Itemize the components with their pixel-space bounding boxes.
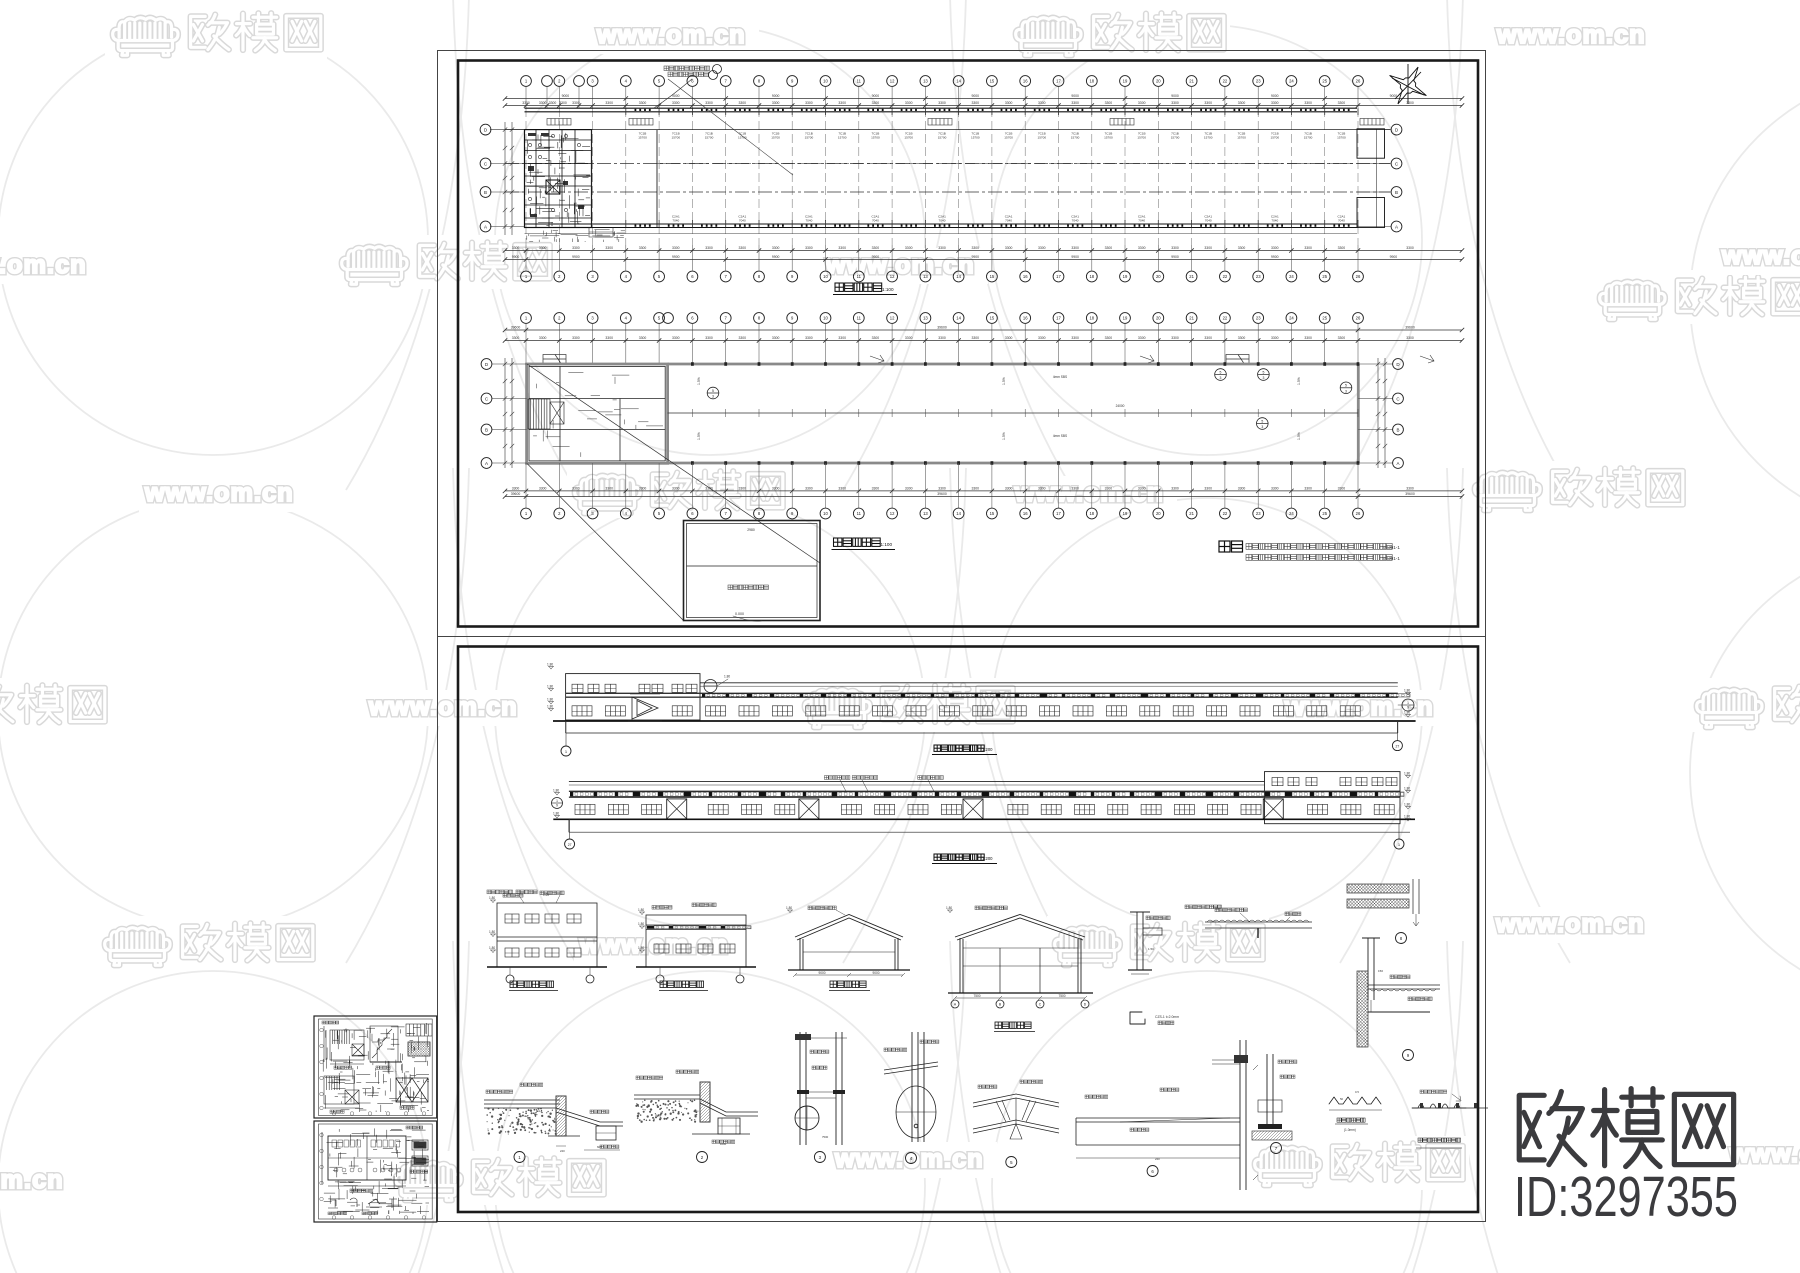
svg-text:1.80: 1.80 xyxy=(1404,771,1410,775)
svg-text:5: 5 xyxy=(1261,419,1263,423)
svg-text:15700: 15700 xyxy=(805,136,814,140)
svg-text:9000: 9000 xyxy=(872,971,879,975)
detail 9 wall section xyxy=(1281,971,1443,1047)
svg-text:0.5: 0.5 xyxy=(1355,1090,1359,1094)
svg-text:3300: 3300 xyxy=(1304,336,1312,340)
svg-text:17: 17 xyxy=(1056,274,1061,279)
svg-text:3300: 3300 xyxy=(772,486,780,490)
deck profile B xyxy=(1412,1104,1466,1108)
svg-text:5: 5 xyxy=(1345,384,1347,388)
svg-text:15700: 15700 xyxy=(1037,136,1046,140)
svg-text:3300: 3300 xyxy=(1105,246,1113,250)
svg-text:3300: 3300 xyxy=(512,246,520,250)
plan 2 bottom grid stems xyxy=(526,463,1358,508)
svg-text:10: 10 xyxy=(823,511,828,516)
elevation 1 upper windows xyxy=(572,684,583,692)
site logo text xyxy=(1519,1089,1733,1167)
svg-text:www.om.cn: www.om.cn xyxy=(825,251,975,279)
small sheet B fixture details xyxy=(412,1140,428,1166)
svg-text:5: 5 xyxy=(1262,370,1264,374)
elevation 1 roof line xyxy=(700,682,1398,684)
svg-text:1.80: 1.80 xyxy=(638,908,644,912)
elevation 2 right levels xyxy=(1405,776,1411,779)
svg-text:15700: 15700 xyxy=(638,136,647,140)
svg-text:15700: 15700 xyxy=(1270,136,1279,140)
svg-text:9900: 9900 xyxy=(512,255,520,259)
svg-text:7040: 7040 xyxy=(1072,219,1079,223)
svg-text:3300: 3300 xyxy=(1238,246,1246,250)
svg-text:12: 12 xyxy=(890,79,895,84)
svg-text:18: 18 xyxy=(1089,79,1094,84)
plan 2 top grid stems xyxy=(526,324,1358,365)
svg-text:3300: 3300 xyxy=(1406,101,1414,105)
watermark logo row 6 xyxy=(0,1163,77,1199)
svg-text:39600: 39600 xyxy=(1405,492,1415,496)
svg-text:7040: 7040 xyxy=(939,219,946,223)
svg-text:16: 16 xyxy=(1023,274,1028,279)
svg-text:3300: 3300 xyxy=(539,246,547,250)
svg-text:26: 26 xyxy=(1356,511,1361,516)
elevation 2 ground line xyxy=(553,818,1415,820)
svg-text:3300: 3300 xyxy=(972,486,980,490)
svg-text:3300: 3300 xyxy=(1071,101,1079,105)
plan 2 leader diagonals xyxy=(527,364,820,563)
plan 2 right dimension ticks xyxy=(1376,358,1387,468)
svg-text:15700: 15700 xyxy=(938,136,947,140)
svg-text:3300: 3300 xyxy=(512,336,520,340)
svg-text:10: 10 xyxy=(823,316,828,321)
svg-text:3300: 3300 xyxy=(838,246,846,250)
svg-text:12: 12 xyxy=(890,316,895,321)
svg-text:9900: 9900 xyxy=(572,255,580,259)
elevation 2 base line xyxy=(569,831,1410,833)
svg-text:9000: 9000 xyxy=(772,94,780,98)
svg-text:11: 11 xyxy=(857,511,862,516)
svg-text:15700: 15700 xyxy=(1104,136,1113,140)
svg-text:24000: 24000 xyxy=(1116,404,1125,408)
svg-text:15700: 15700 xyxy=(971,136,980,140)
svg-text:7500: 7500 xyxy=(822,1135,829,1139)
svg-text:21: 21 xyxy=(1189,79,1194,84)
plan 1 entrance canopies xyxy=(547,119,571,126)
plan 2 drain arrows xyxy=(870,355,1434,363)
small sheet B border xyxy=(314,1121,437,1222)
elevation 2 upper windows right box xyxy=(1272,778,1283,786)
elevation 1 lower windows xyxy=(572,706,592,716)
svg-text:600: 600 xyxy=(597,1145,602,1149)
plan 2 slope labels xyxy=(697,377,1301,440)
svg-text:3300: 3300 xyxy=(705,101,713,105)
svg-text:3300: 3300 xyxy=(739,101,747,105)
svg-text:14: 14 xyxy=(956,316,961,321)
section 2-2 xyxy=(955,915,1085,994)
plan 1 leader diagonal xyxy=(668,79,793,175)
svg-text:1.80: 1.80 xyxy=(724,675,730,679)
svg-text:(1.0mm): (1.0mm) xyxy=(1344,1128,1356,1132)
svg-text:15700: 15700 xyxy=(671,136,680,140)
crane column detail xyxy=(1128,912,1162,974)
svg-text:24: 24 xyxy=(1289,316,1294,321)
svg-text:22: 22 xyxy=(1223,79,1228,84)
svg-text:4mm SBS: 4mm SBS xyxy=(1053,434,1067,438)
svg-text:3300: 3300 xyxy=(872,246,880,250)
svg-text:25: 25 xyxy=(1322,274,1327,279)
svg-text:1.5%: 1.5% xyxy=(1297,432,1301,440)
svg-text:7040: 7040 xyxy=(739,219,746,223)
svg-text:9000: 9000 xyxy=(1271,94,1279,98)
svg-text:150: 150 xyxy=(1378,969,1383,973)
north star xyxy=(1390,64,1427,104)
svg-text:www.om.cn: www.om.cn xyxy=(0,1166,64,1194)
svg-text:A: A xyxy=(484,224,487,229)
svg-text:3300: 3300 xyxy=(605,246,613,250)
elevation 1 right levels xyxy=(1405,693,1411,696)
svg-text:3300: 3300 xyxy=(672,246,680,250)
svg-text:www.om.cn: www.om.cn xyxy=(1721,242,1800,270)
svg-text:1.80: 1.80 xyxy=(786,906,792,910)
svg-text:3300: 3300 xyxy=(1071,246,1079,250)
svg-text:3: 3 xyxy=(1345,389,1347,393)
svg-text:24: 24 xyxy=(1289,274,1294,279)
svg-text:26: 26 xyxy=(1356,79,1361,84)
svg-text:3300: 3300 xyxy=(1071,336,1079,340)
elevation 1 band xyxy=(566,692,1398,694)
svg-text:3300: 3300 xyxy=(938,486,946,490)
purlin detail xyxy=(1205,920,1312,938)
svg-text:3300: 3300 xyxy=(1171,336,1179,340)
svg-text:3300: 3300 xyxy=(639,246,647,250)
svg-text:7040: 7040 xyxy=(1271,219,1278,223)
svg-text:3300: 3300 xyxy=(1406,486,1414,490)
detail 1 foundation xyxy=(484,1096,623,1140)
svg-text:1.5%: 1.5% xyxy=(1002,432,1006,440)
svg-text:1.80: 1.80 xyxy=(1404,814,1410,818)
svg-text:240: 240 xyxy=(1155,1157,1160,1161)
svg-text:3300: 3300 xyxy=(1271,486,1279,490)
svg-text:9000: 9000 xyxy=(972,94,980,98)
svg-text:1.80: 1.80 xyxy=(1404,786,1410,790)
svg-text:3300: 3300 xyxy=(838,486,846,490)
elevation 2 windows xyxy=(575,804,595,814)
svg-text:9900: 9900 xyxy=(1390,255,1398,259)
svg-text:18: 18 xyxy=(1089,511,1094,516)
svg-text:3300: 3300 xyxy=(1071,486,1079,490)
svg-text:14: 14 xyxy=(956,511,961,516)
svg-text:1.5%: 1.5% xyxy=(1002,377,1006,385)
svg-text:7040: 7040 xyxy=(1205,219,1212,223)
svg-text:240: 240 xyxy=(560,1149,565,1153)
svg-text:25: 25 xyxy=(1322,79,1327,84)
elevation 1 left box xyxy=(566,674,700,720)
plan 2 detail callout circles xyxy=(1215,369,1227,381)
svg-text:7040: 7040 xyxy=(805,219,812,223)
plan 2 title xyxy=(834,538,842,546)
plan 2 ridge line xyxy=(668,412,1359,414)
svg-text:3: 3 xyxy=(1262,376,1264,380)
svg-text:50: 50 xyxy=(1340,1097,1344,1101)
sheet 2 outer border xyxy=(438,637,1486,1222)
plan 1 window labels bottom xyxy=(672,215,1346,223)
svg-text:3300: 3300 xyxy=(1204,336,1212,340)
svg-text:13: 13 xyxy=(923,316,928,321)
plan 2 roof strip xyxy=(668,364,1359,463)
plan 1 bottom wall xyxy=(525,223,1358,225)
svg-text:15700: 15700 xyxy=(871,136,880,140)
svg-text:23: 23 xyxy=(1256,274,1261,279)
svg-text:CZS-1 t=2.0mm: CZS-1 t=2.0mm xyxy=(1155,1015,1179,1019)
svg-text:17: 17 xyxy=(1056,79,1061,84)
svg-text:3300: 3300 xyxy=(1238,486,1246,490)
watermark arcs xyxy=(346,0,1570,1273)
svg-text:3300: 3300 xyxy=(572,336,580,340)
plan 1 right annex rooms xyxy=(1357,129,1385,228)
svg-text:3300: 3300 xyxy=(1138,336,1146,340)
svg-text:3300: 3300 xyxy=(1238,101,1246,105)
elevation 1 title xyxy=(934,745,940,751)
svg-text:1.80: 1.80 xyxy=(547,704,553,708)
svg-text:1:200: 1:200 xyxy=(982,856,993,861)
svg-text:1.80: 1.80 xyxy=(489,930,495,934)
svg-text:3300: 3300 xyxy=(705,246,713,250)
plan 1 axis B line xyxy=(505,191,1390,193)
svg-text:1.5%: 1.5% xyxy=(697,377,701,385)
svg-text:9900: 9900 xyxy=(1171,255,1179,259)
plan 1 leader note xyxy=(664,66,710,77)
svg-text:3300: 3300 xyxy=(1271,246,1279,250)
svg-text:3300: 3300 xyxy=(972,336,980,340)
svg-text:3300: 3300 xyxy=(672,101,680,105)
svg-text:21: 21 xyxy=(1189,511,1194,516)
svg-text:1.80: 1.80 xyxy=(553,811,559,815)
svg-text:3300: 3300 xyxy=(1171,101,1179,105)
svg-text:B: B xyxy=(485,427,488,432)
plan 1 left block detail lines xyxy=(527,133,591,226)
svg-text:7500: 7500 xyxy=(973,994,980,998)
svg-text:14: 14 xyxy=(956,274,961,279)
svg-text:3300: 3300 xyxy=(1238,336,1246,340)
elevation 1 left levels xyxy=(548,667,554,670)
small sheet B extra detail xyxy=(324,1128,429,1214)
plan 1 left letter circles xyxy=(490,129,525,131)
svg-text:www.om.cn: www.om.cn xyxy=(368,693,518,721)
svg-text:15700: 15700 xyxy=(1204,136,1213,140)
svg-text:9: 9 xyxy=(1407,706,1409,710)
svg-text:15700: 15700 xyxy=(1171,136,1180,140)
elevation 2 title xyxy=(934,854,940,860)
svg-text:1.80: 1.80 xyxy=(489,896,495,900)
svg-text:3300: 3300 xyxy=(1338,246,1346,250)
svg-text:1.80: 1.80 xyxy=(547,662,553,666)
svg-text:3300: 3300 xyxy=(1038,246,1046,250)
svg-text:3300: 3300 xyxy=(1271,101,1279,105)
plan 1 top grid circles xyxy=(521,76,1364,87)
svg-text:1.50: 1.50 xyxy=(1148,947,1154,951)
sheet 2 inner border xyxy=(458,647,1478,1213)
svg-text:1: 1 xyxy=(556,799,558,803)
svg-text:27: 27 xyxy=(1396,744,1400,748)
svg-text:11: 11 xyxy=(857,316,862,321)
svg-text:www.om.cn: www.om.cn xyxy=(1014,479,1164,507)
elevation 1 ground line xyxy=(553,720,1416,722)
svg-text:3300: 3300 xyxy=(739,336,747,340)
svg-text:5: 5 xyxy=(712,389,714,393)
svg-text:B: B xyxy=(1396,427,1399,432)
svg-text:B: B xyxy=(484,190,487,195)
svg-text:www.om.cn: www.om.cn xyxy=(1496,21,1646,49)
plan 2 wall tick marks xyxy=(691,362,1359,465)
svg-text:1:100: 1:100 xyxy=(882,287,894,292)
small sheet B toilet plan xyxy=(322,1132,406,1186)
plan 1 bottom grid circles xyxy=(521,271,1364,282)
svg-text:3300: 3300 xyxy=(1138,246,1146,250)
svg-text:3300: 3300 xyxy=(605,101,613,105)
svg-text:3300: 3300 xyxy=(838,336,846,340)
svg-text:3300: 3300 xyxy=(938,336,946,340)
svg-text:3300: 3300 xyxy=(1338,336,1346,340)
svg-text:21: 21 xyxy=(1189,316,1194,321)
svg-text:3300: 3300 xyxy=(1105,336,1113,340)
svg-text:26: 26 xyxy=(1356,316,1361,321)
svg-text:1000: 1000 xyxy=(720,1142,727,1146)
svg-text:22: 22 xyxy=(1223,274,1228,279)
svg-text:3300: 3300 xyxy=(1271,336,1279,340)
svg-text:3300: 3300 xyxy=(1338,101,1346,105)
plan 2 top dimensions xyxy=(505,329,1462,331)
sheet 2 bottom-left notes xyxy=(487,890,491,894)
svg-text:3300: 3300 xyxy=(605,486,613,490)
plan 1 top dimensions xyxy=(505,98,1462,100)
detail 2 foundation xyxy=(634,1082,758,1134)
svg-text:www.om.cn: www.om.cn xyxy=(0,251,87,279)
svg-text:10: 10 xyxy=(823,274,828,279)
svg-text:19: 19 xyxy=(1123,511,1128,516)
svg-text:A: A xyxy=(485,461,488,466)
svg-text:3300: 3300 xyxy=(639,336,647,340)
svg-text:19: 19 xyxy=(1123,79,1128,84)
small sheet A truss detail xyxy=(396,1078,428,1102)
elevation 1 base line xyxy=(566,732,1398,734)
svg-text:3: 3 xyxy=(1261,425,1263,429)
svg-text:3300: 3300 xyxy=(772,336,780,340)
svg-text:9900: 9900 xyxy=(772,255,780,259)
elevation 1 grid circles xyxy=(565,721,567,746)
svg-text:9900: 9900 xyxy=(972,255,980,259)
svg-text:16: 16 xyxy=(1023,511,1028,516)
svg-text:39600: 39600 xyxy=(511,492,521,496)
plan 2 left letter circles xyxy=(492,363,527,365)
svg-text:3300: 3300 xyxy=(1138,486,1146,490)
svg-text:20: 20 xyxy=(1156,274,1161,279)
svg-text:25: 25 xyxy=(1322,316,1327,321)
svg-text:3300: 3300 xyxy=(905,246,913,250)
plan 2 left block detail lines xyxy=(533,372,663,457)
svg-text:3300: 3300 xyxy=(1005,336,1013,340)
svg-text:15700: 15700 xyxy=(1071,136,1080,140)
svg-text:3300: 3300 xyxy=(512,486,520,490)
svg-text:3300: 3300 xyxy=(805,486,813,490)
svg-text:15700: 15700 xyxy=(904,136,913,140)
deck profile A xyxy=(1329,1097,1381,1104)
svg-text:1.80: 1.80 xyxy=(638,946,644,950)
svg-text:9000: 9000 xyxy=(818,971,825,975)
sheet 1 outer border xyxy=(438,51,1486,637)
svg-text:3300: 3300 xyxy=(972,246,980,250)
svg-text:3300: 3300 xyxy=(572,246,580,250)
svg-text:3300: 3300 xyxy=(539,336,547,340)
svg-text:www.om.cn: www.om.cn xyxy=(1495,910,1645,938)
svg-text:13: 13 xyxy=(923,511,928,516)
svg-text:11: 11 xyxy=(857,79,862,84)
svg-text:3300: 3300 xyxy=(905,486,913,490)
svg-text:3300: 3300 xyxy=(1304,101,1312,105)
svg-text:24: 24 xyxy=(1289,79,1294,84)
svg-text:3300: 3300 xyxy=(639,486,647,490)
plan 1 right letter circles xyxy=(1357,129,1391,131)
svg-text:7040: 7040 xyxy=(1338,219,1345,223)
svg-text:9000: 9000 xyxy=(1171,94,1179,98)
svg-text:3300: 3300 xyxy=(872,336,880,340)
notes text xyxy=(1219,541,1230,552)
svg-text:19: 19 xyxy=(1123,316,1128,321)
sheet 1 inner border xyxy=(458,61,1478,627)
svg-text:3300: 3300 xyxy=(1304,246,1312,250)
svg-text:15700: 15700 xyxy=(1237,136,1246,140)
plan 1 stair toilet block xyxy=(525,130,592,228)
svg-text:1.5%: 1.5% xyxy=(697,432,701,440)
detail 4 column ellipse xyxy=(884,1032,938,1142)
svg-text:9: 9 xyxy=(556,804,558,808)
svg-text:3300: 3300 xyxy=(605,336,613,340)
svg-text:3300: 3300 xyxy=(1005,246,1013,250)
svg-text:15: 15 xyxy=(990,511,995,516)
plan 1 window labels top xyxy=(638,132,1346,140)
svg-text:3300: 3300 xyxy=(572,486,580,490)
column stub detail xyxy=(1362,938,1380,1012)
svg-text:39600: 39600 xyxy=(937,325,947,329)
svg-text:1.80: 1.80 xyxy=(547,697,553,701)
svg-text:3300: 3300 xyxy=(672,486,680,490)
svg-text:3300: 3300 xyxy=(522,101,530,105)
svg-text:www.om.cn: www.om.cn xyxy=(144,479,294,507)
svg-text:15700: 15700 xyxy=(771,136,780,140)
svg-text:3300: 3300 xyxy=(1005,486,1013,490)
svg-text:21: 21 xyxy=(1189,274,1194,279)
svg-text:3300: 3300 xyxy=(549,101,557,105)
svg-text:27: 27 xyxy=(568,843,572,847)
svg-text:7040: 7040 xyxy=(1005,219,1012,223)
svg-text:SCJ01-1: SCJ01-1 xyxy=(1382,556,1400,561)
svg-text:16: 16 xyxy=(1023,79,1028,84)
plan 1 interior partitions xyxy=(592,130,1358,228)
svg-text:1.80: 1.80 xyxy=(1404,688,1410,692)
svg-text:3300: 3300 xyxy=(1005,101,1013,105)
svg-text:1:200: 1:200 xyxy=(982,747,993,752)
svg-text:9000: 9000 xyxy=(872,94,880,98)
svg-text:3300: 3300 xyxy=(1204,486,1212,490)
svg-text:18: 18 xyxy=(1089,316,1094,321)
svg-text:3300: 3300 xyxy=(1338,486,1346,490)
svg-text:9000: 9000 xyxy=(562,94,570,98)
svg-text:3300: 3300 xyxy=(772,246,780,250)
svg-text:17: 17 xyxy=(1056,511,1061,516)
svg-text:23: 23 xyxy=(1256,79,1261,84)
plan 1 south canopy tangle xyxy=(527,230,625,242)
plan 2 blowup detail box xyxy=(684,521,821,621)
svg-text:1.80: 1.80 xyxy=(547,684,553,688)
elevation 2 leader notes xyxy=(824,776,943,792)
svg-text:9900: 9900 xyxy=(872,255,880,259)
elevation 2 roof line xyxy=(569,781,1265,783)
